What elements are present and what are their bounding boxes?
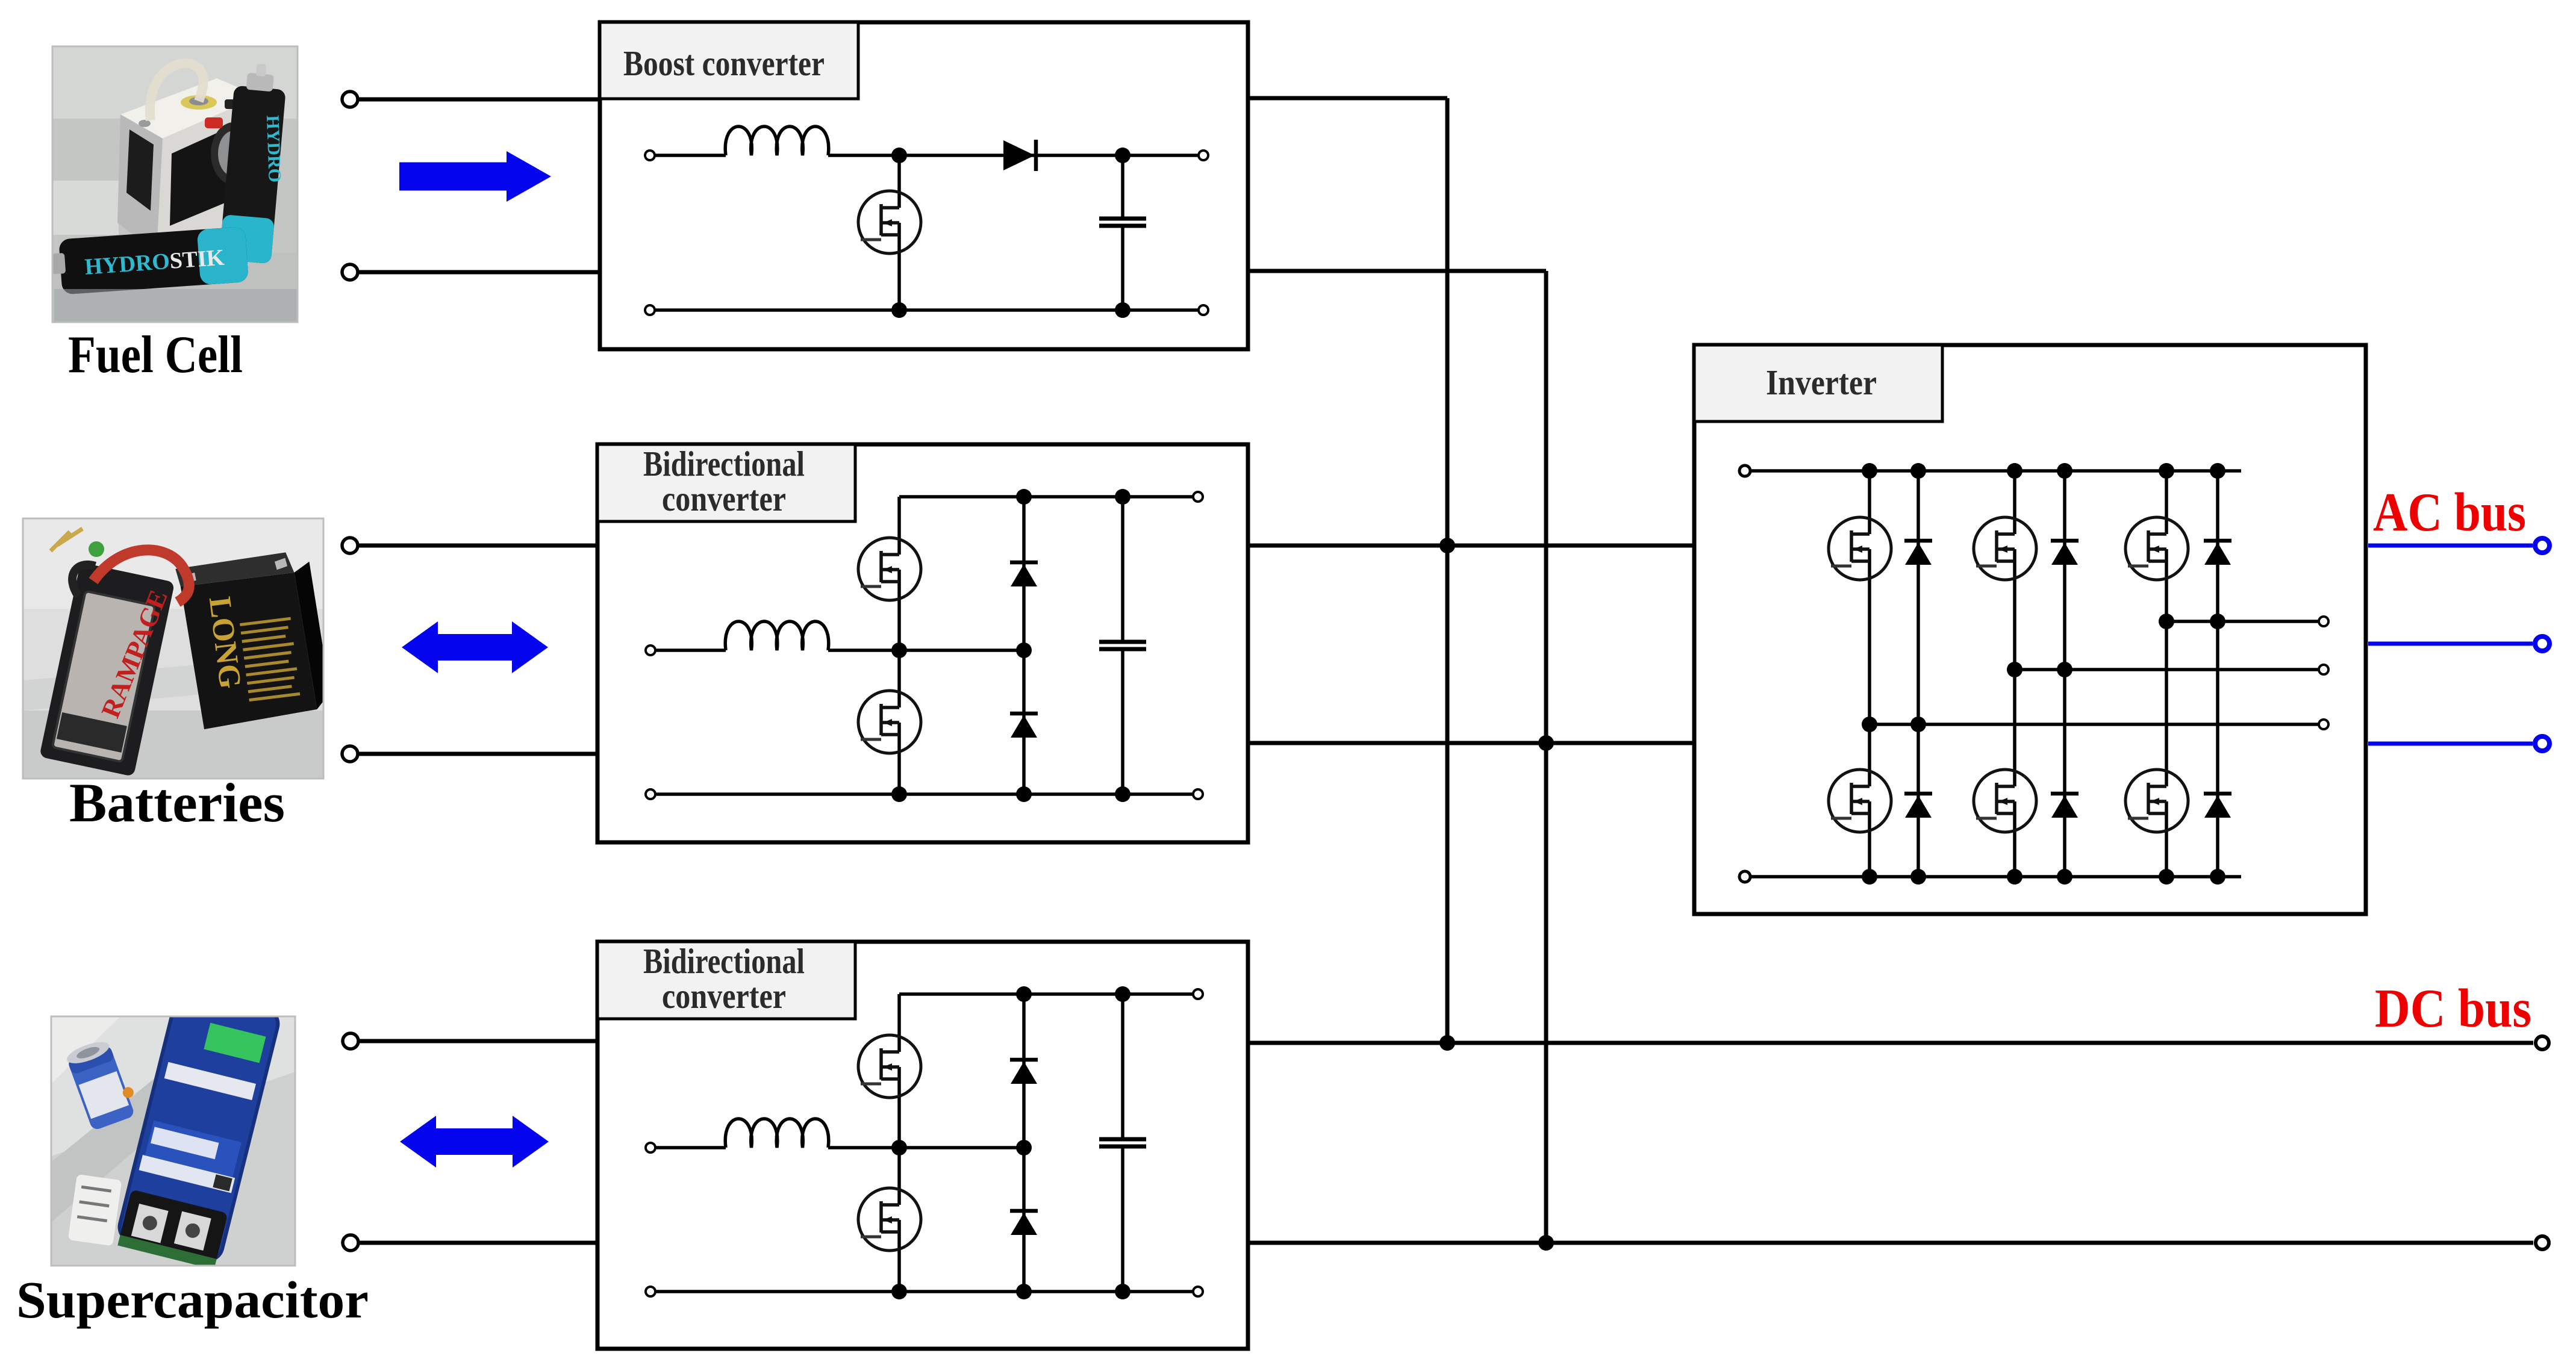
svg-text:AC bus: AC bus <box>2373 482 2526 543</box>
svg-text:converter: converter <box>662 479 786 518</box>
svg-text:Supercapacitor: Supercapacitor <box>16 1270 369 1329</box>
svg-text:Bidirectional: Bidirectional <box>643 941 805 981</box>
svg-text:DC bus: DC bus <box>2375 978 2531 1039</box>
svg-text:Inverter: Inverter <box>1766 362 1877 402</box>
svg-text:HYDRO: HYDRO <box>263 115 285 183</box>
svg-text:Fuel Cell: Fuel Cell <box>68 326 243 384</box>
svg-text:Bidirectional: Bidirectional <box>643 444 805 484</box>
svg-text:converter: converter <box>662 976 786 1016</box>
svg-text:Batteries: Batteries <box>69 772 285 833</box>
svg-text:Boost converter: Boost converter <box>623 43 825 83</box>
